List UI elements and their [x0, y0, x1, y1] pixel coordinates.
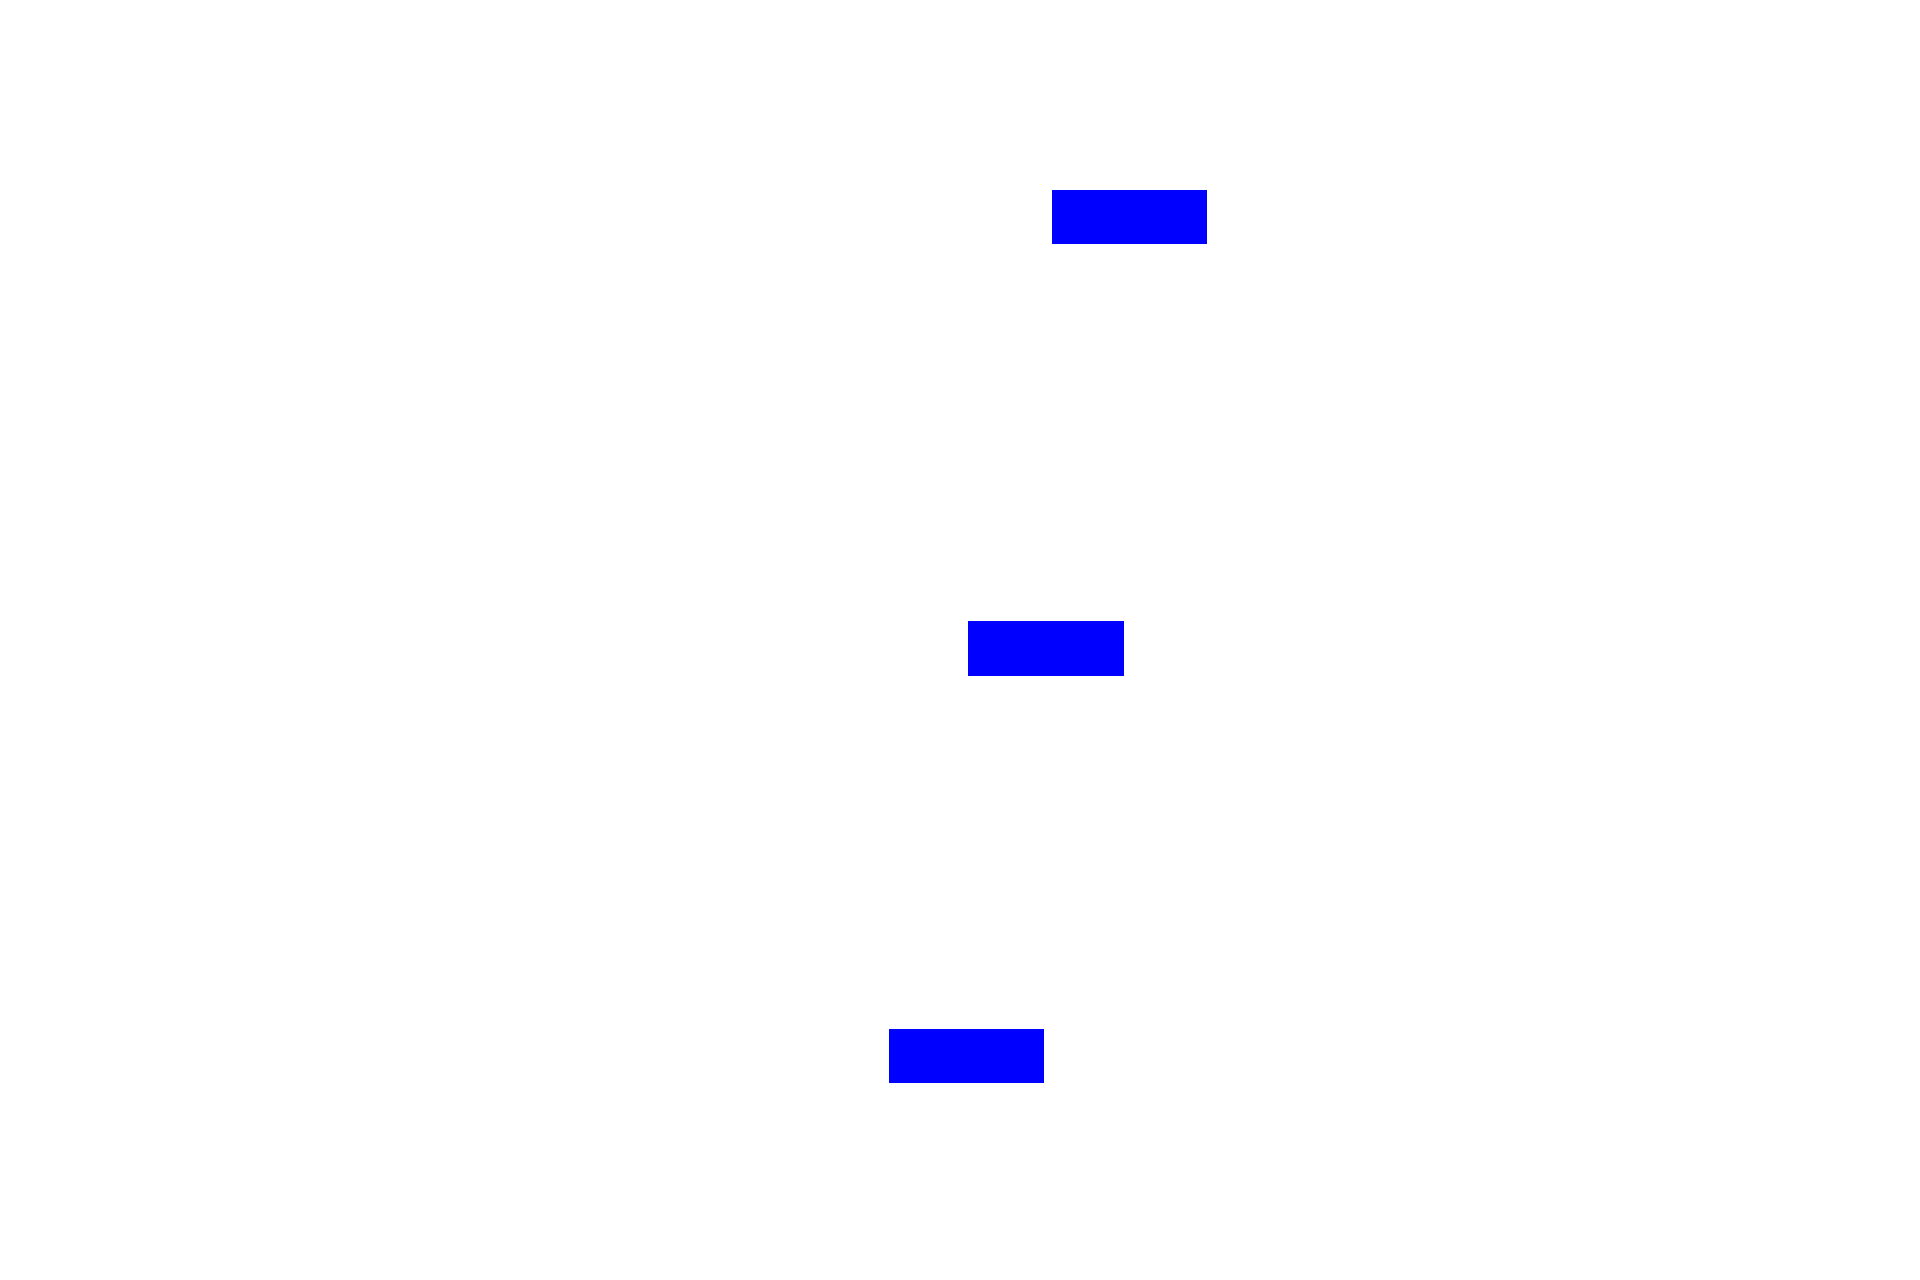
blue rectangle 3 (bottom) [889, 1029, 1044, 1083]
blue rectangle 1 (top) [1052, 190, 1207, 244]
blue rectangle 2 (middle) [968, 621, 1124, 676]
